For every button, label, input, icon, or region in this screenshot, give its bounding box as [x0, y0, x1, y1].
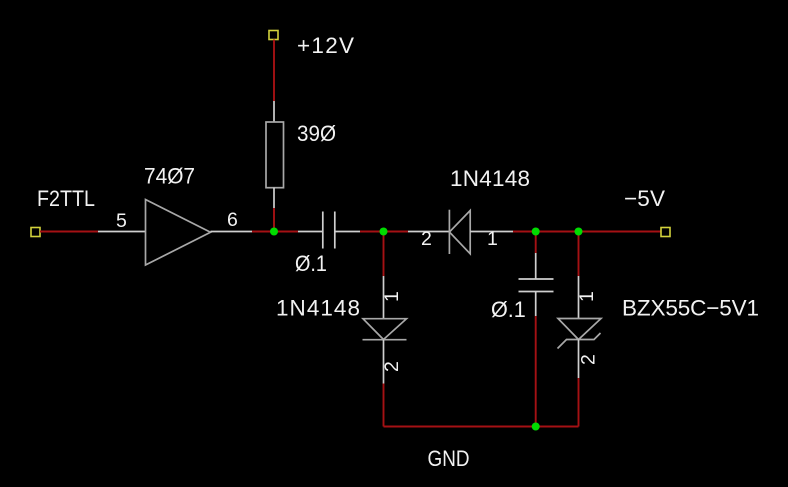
wire junction D down to D3 — [578, 232, 580, 277]
junction node A — [270, 228, 278, 236]
svg-text:1: 1 — [576, 291, 598, 302]
port +12V — [269, 31, 278, 40]
svg-text:−5V: −5V — [624, 186, 665, 211]
wire C2 down to GND rail — [535, 316, 537, 427]
svg-text:BZX55C−5V1: BZX55C−5V1 — [622, 296, 759, 321]
diode D1 1N4148 triangle — [449, 211, 470, 254]
zener D3 pin 2 lead — [578, 340, 580, 379]
zener D3 cathode bar with hooks — [558, 333, 601, 349]
capacitor C1 left pin — [298, 231, 323, 233]
svg-text:39Ø: 39Ø — [297, 120, 336, 146]
resistor R1 body — [266, 122, 284, 188]
junction node B — [380, 228, 388, 236]
capacitor C2 bottom pin — [535, 292, 537, 317]
diode D1 pin 2 lead — [408, 231, 449, 233]
wire junction C down to C2 — [535, 232, 537, 254]
svg-text:1N4148: 1N4148 — [276, 296, 360, 321]
resistor R1 bottom pin — [273, 188, 275, 208]
svg-text:2: 2 — [578, 354, 600, 365]
junction node D — [575, 228, 583, 236]
resistor R1 top pin — [273, 101, 275, 122]
svg-text:Ø.1: Ø.1 — [491, 297, 526, 323]
svg-text:F2TTL: F2TTL — [37, 187, 95, 211]
svg-text:+12V: +12V — [297, 33, 354, 58]
svg-text:GND: GND — [428, 447, 470, 472]
diode D2 cathode bar — [363, 339, 407, 341]
capacitor C1 plates — [322, 212, 324, 249]
svg-text:Ø.1: Ø.1 — [295, 252, 327, 276]
junction node C — [532, 228, 540, 236]
wire F2TTL net — [40, 231, 98, 233]
wire resistor to junction — [273, 208, 275, 232]
capacitor C2 top pin — [535, 253, 537, 279]
svg-text:6: 6 — [227, 209, 238, 231]
svg-text:1: 1 — [381, 291, 403, 302]
wire GND rail — [384, 426, 579, 428]
diode D1 1N4148 cathode bar — [448, 210, 450, 254]
pin 6 of U1 — [211, 231, 253, 233]
port F2TTL — [31, 228, 40, 237]
svg-text:1N4148: 1N4148 — [450, 166, 530, 191]
diode D2 pin 2 lead — [383, 340, 385, 384]
diode D2 pin 1 lead — [383, 276, 385, 319]
wire D1 to -5V port — [513, 231, 661, 233]
capacitor C2 plates — [519, 278, 554, 280]
diode D2 1N4148 triangle — [363, 319, 407, 340]
diode D1 pin 1 lead — [470, 231, 513, 233]
svg-text:5: 5 — [116, 210, 127, 232]
svg-text:1: 1 — [487, 228, 498, 250]
capacitor C1 right pin — [335, 231, 360, 233]
svg-text:74Ø7: 74Ø7 — [144, 163, 195, 189]
zener D3 triangle — [558, 319, 601, 340]
wire U1 out to junction — [252, 231, 298, 233]
port -5V — [661, 228, 670, 237]
svg-text:2: 2 — [421, 228, 432, 250]
pin 5 of U1 — [98, 231, 146, 233]
wire D2 down to GND rail — [383, 384, 385, 427]
svg-text:2: 2 — [381, 361, 403, 372]
wire junction B down to D2 — [383, 232, 385, 277]
buffer U1 7407 — [146, 200, 211, 266]
junction node GND — [532, 423, 540, 431]
wire D3 down to GND rail — [578, 378, 580, 427]
zener D3 pin 1 lead — [578, 276, 580, 319]
wire C1 to junction B — [360, 231, 408, 233]
wire +12V net — [273, 40, 275, 102]
